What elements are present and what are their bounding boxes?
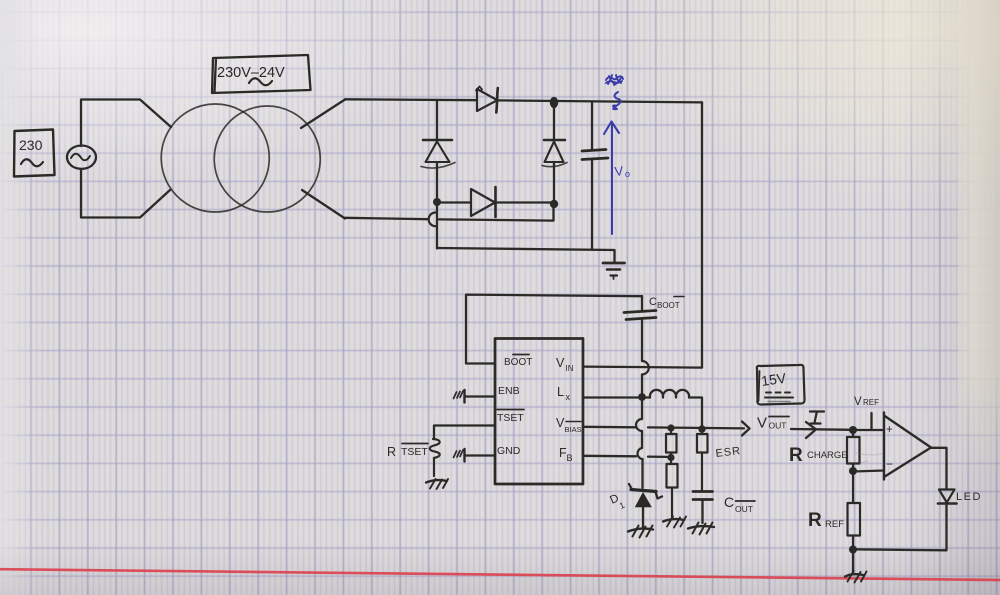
svg-text:R: R: [789, 445, 803, 466]
svg-text:IN: IN: [566, 364, 574, 373]
wire BOOT pin to bootstrap rail: [466, 295, 642, 364]
node feedback node: [849, 467, 857, 475]
wire inductor to output node: [689, 398, 702, 430]
svg-text:ENB: ENB: [498, 385, 520, 397]
diode D2 top rail: [476, 87, 498, 113]
svg-text:LED: LED: [956, 491, 982, 503]
wire Lx node down to first hop: [641, 397, 643, 419]
svg-text:C: C: [724, 494, 734, 510]
pin label TSET: [497, 410, 524, 425]
wire VOUT to charge node with current arrow: [791, 422, 853, 438]
node left bridge junction: [433, 198, 441, 206]
pin stub GND with no-connect marks: [454, 449, 496, 462]
wire VREF stub: [870, 413, 872, 430]
ground divider: [663, 517, 686, 528]
node top-right bridge junction: [550, 97, 558, 108]
wire bottom rail to ground: [437, 248, 615, 262]
wire to op-amp plus input: [853, 429, 884, 431]
op-amp U2: [884, 413, 931, 480]
node right bridge lower junction: [550, 200, 558, 208]
svg-text:GND: GND: [497, 445, 521, 457]
wire right bridge branch lower: [553, 162, 555, 204]
wire hop D1 over VOUT rail: [636, 419, 642, 431]
wire VOUT rail with arrow: [648, 422, 750, 436]
capacitor C1 filter: [582, 102, 608, 250]
wire left bridge branch lower: [436, 162, 438, 249]
zener diode D1: [629, 484, 662, 527]
AC source G1: [67, 146, 96, 169]
svg-text:+: +: [886, 424, 893, 436]
wire bottom node to ground: [852, 551, 854, 572]
label RTSET: [387, 444, 428, 460]
pin label Lx: [557, 385, 571, 402]
svg-text:230: 230: [19, 137, 43, 153]
label VOUT: [757, 415, 789, 432]
svg-text:V: V: [757, 415, 767, 432]
transformer T1 primary winding: [161, 104, 269, 212]
wire left bridge branch upper: [436, 100, 438, 139]
svg-text:x: x: [566, 392, 571, 402]
inductor L1: [650, 390, 689, 398]
svg-text:OUT: OUT: [735, 504, 753, 514]
svg-text:−: −: [886, 457, 893, 471]
svg-text:REF: REF: [825, 519, 844, 530]
svg-text:B: B: [567, 453, 573, 463]
pin label ENB: [498, 385, 520, 397]
wire VBIAS pin to VOUT rail: [583, 426, 636, 429]
wire AC source top to transformer primary: [81, 100, 171, 147]
node output node: [698, 425, 705, 432]
label 230V-24V box: [212, 55, 311, 93]
annotation scribble (crossed out) blue: [606, 75, 623, 85]
svg-text:TSET: TSET: [401, 446, 428, 458]
capacitor CBOOT: [624, 296, 656, 361]
ground COUT: [688, 523, 714, 535]
annotation squiggle on top rail blue: [613, 92, 621, 109]
red margin rule: [0, 569, 1000, 580]
svg-text:1: 1: [618, 500, 627, 511]
wire VIN pin to input rail: [583, 367, 702, 368]
IC U1 body: [495, 339, 583, 485]
svg-text:V: V: [556, 356, 565, 370]
wire to op-amp minus input: [853, 471, 884, 472]
wire Lx pin to inductor: [583, 396, 650, 398]
wire input rail vertical from top: [701, 102, 703, 367]
wire hop over left branch: [429, 213, 436, 227]
wire middle diode to right junction: [496, 201, 554, 203]
svg-text:BIAS: BIAS: [565, 425, 582, 434]
diode LED: [938, 490, 957, 550]
svg-text:15V: 15V: [760, 370, 788, 389]
diode D5 right bridge arm: [542, 140, 567, 167]
node divider top: [667, 424, 674, 431]
wire feedback bottom rail: [853, 549, 947, 550]
svg-text:ESR: ESR: [715, 445, 742, 460]
label COUT: [724, 494, 755, 514]
pin label VBIAS: [556, 416, 582, 434]
resistor ESR: [697, 432, 708, 492]
svg-text:CHARGE: CHARGE: [807, 450, 848, 461]
pin label BOOT: [504, 355, 532, 369]
resistor R1 divider upper: [666, 432, 677, 457]
pin stub ENB with no-connect marks: [454, 390, 496, 403]
capacitor COUT: [693, 492, 713, 524]
ground bridge rectifier: [603, 263, 625, 279]
wire hop D1 over FB wire: [637, 448, 642, 459]
diode D4 middle horizontal: [471, 187, 496, 217]
wire right bridge branch upper: [553, 102, 555, 140]
pin label VIN: [556, 356, 574, 373]
svg-text:o: o: [625, 169, 630, 179]
svg-text:230V–24V: 230V–24V: [217, 65, 285, 81]
wire secondary bottom to hop: [345, 218, 428, 219]
wire hop to right bridge junction: [439, 205, 554, 221]
label VREF: [854, 396, 879, 408]
label current I: [810, 412, 824, 424]
ground RTSET: [426, 479, 448, 489]
diode D3 left bridge arm: [421, 140, 455, 168]
svg-text:L: L: [557, 385, 564, 399]
svg-text:OUT: OUT: [769, 421, 787, 431]
svg-text:C: C: [649, 296, 657, 308]
svg-text:V: V: [854, 396, 862, 408]
label RREF: [808, 510, 844, 531]
svg-text:TSET: TSET: [497, 412, 524, 424]
wire hop CBOOT over VIN wire: [642, 361, 649, 375]
ground D1: [628, 526, 653, 538]
node divider mid FB: [667, 454, 674, 461]
resistor RTSET zigzag: [430, 439, 440, 476]
label Vo blue: [614, 163, 630, 179]
transformer T1 secondary winding: [214, 106, 320, 212]
label D1: [608, 492, 626, 510]
label ESR: [715, 445, 742, 460]
wire hop to zener: [641, 459, 643, 488]
node bottom rail: [849, 546, 857, 554]
wire transformer secondary bottom diagonal: [302, 190, 345, 219]
pin label FB: [559, 446, 573, 463]
resistor RCHARGE: [847, 434, 860, 467]
label box 230V mains: [14, 130, 55, 177]
wire left junction to middle diode: [437, 201, 471, 203]
wire op-amp output: [931, 448, 947, 489]
pin label GND: [497, 445, 521, 457]
wire top rail: [345, 99, 702, 102]
ground comparator: [845, 571, 867, 583]
resistor R2 divider lower: [667, 460, 678, 517]
label CBOOT: [649, 296, 684, 310]
wire FB pin to divider: [583, 456, 667, 457]
node charge node: [849, 426, 857, 434]
arrow Vo blue: [604, 122, 619, 235]
node Lx switch node: [638, 393, 646, 401]
svg-text:R: R: [387, 445, 396, 459]
wire between hops D1: [641, 431, 643, 448]
wire AC source bottom to transformer primary: [81, 169, 170, 218]
wire TSET pin to RTSET: [434, 426, 495, 440]
svg-text:BOOT: BOOT: [657, 301, 680, 310]
svg-text:V: V: [614, 163, 625, 179]
resistor RREF: [848, 475, 861, 547]
wire transformer secondary top diagonal: [301, 100, 345, 129]
pencil smudge near op-amp: [856, 453, 882, 463]
svg-text:REF: REF: [863, 398, 879, 407]
svg-text:BOOT: BOOT: [504, 357, 532, 368]
label RCHARGE: [789, 445, 848, 466]
label LED: [956, 491, 982, 503]
svg-text:R: R: [808, 510, 822, 531]
label box 15V: [757, 365, 805, 405]
wire CBOOT to Lx node: [641, 375, 643, 394]
